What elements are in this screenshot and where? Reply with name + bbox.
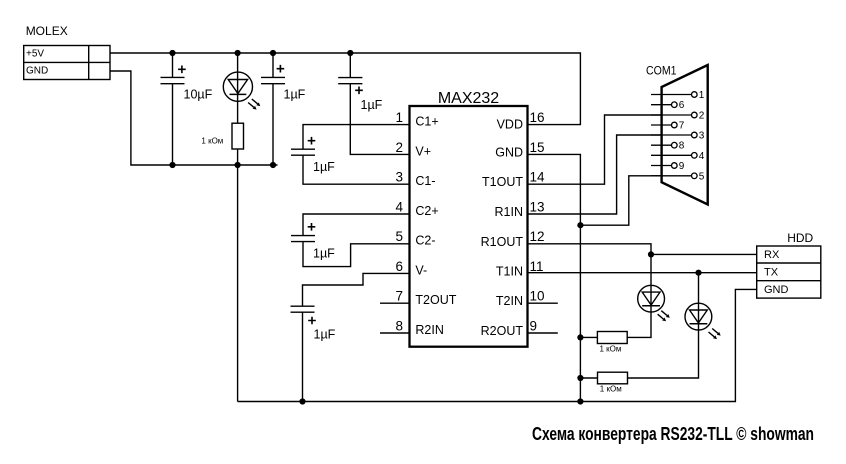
wire ground bus to COM1 pin5 (580, 176, 691, 225)
node +5V / C1 top junction (169, 50, 175, 56)
node +5V / LED D1 anode junction (235, 50, 241, 56)
svg-text:8: 8 (395, 318, 403, 333)
capacitor C3 1uF plates (338, 78, 362, 84)
plus mark C5 (308, 223, 316, 231)
wire GND from MOLEX to left ground bus (110, 71, 278, 165)
node GND / C1 bottom junction (169, 162, 175, 168)
node GND bus / bottom rail junction (577, 398, 583, 404)
resistor R3 1kOm box (598, 372, 628, 384)
svg-text:+5V: +5V (26, 48, 44, 59)
svg-text:T2OUT: T2OUT (415, 293, 456, 307)
svg-text:1 кОм: 1 кОм (201, 136, 223, 145)
svg-text:RX: RX (764, 249, 780, 261)
svg-text:R2IN: R2IN (415, 323, 443, 337)
node GND / R1 bottom junction (235, 162, 241, 168)
svg-text:R1IN: R1IN (495, 205, 523, 219)
COM1 pin 1 circle (672, 92, 698, 179)
capacitor C1 10uF plates (161, 77, 185, 83)
svg-text:1 кОм: 1 кОм (600, 385, 622, 394)
svg-text:T1IN: T1IN (496, 264, 523, 278)
wire LED D1 branch vertical (237, 53, 239, 123)
svg-text:9: 9 (679, 161, 685, 172)
op-amp U1 MAX232 body (410, 106, 528, 347)
svg-text:C2-: C2- (415, 234, 435, 248)
node GND bus / R3 junction (577, 375, 583, 381)
svg-text:GND: GND (495, 145, 523, 159)
svg-text:15: 15 (530, 140, 545, 155)
svg-text:GND: GND (764, 284, 789, 296)
svg-text:2: 2 (395, 140, 403, 155)
svg-text:13: 13 (530, 199, 545, 214)
svg-text:5: 5 (395, 229, 403, 244)
COM1 pin 5 circle (692, 173, 698, 179)
capacitor C5 1uF wires pin4 to pin5 (303, 214, 410, 267)
wire COM1 pins 1-5 stubs (651, 95, 692, 176)
LED D3 (685, 303, 721, 339)
connector MOLEX box (24, 46, 110, 80)
svg-text:GND: GND (26, 65, 48, 76)
plus mark C1 (178, 66, 186, 74)
node TX / LED D3 anode junction (695, 270, 701, 276)
svg-text:8: 8 (679, 141, 685, 152)
svg-text:1: 1 (699, 90, 705, 101)
svg-text:3: 3 (699, 131, 705, 142)
svg-text:10µF: 10µF (184, 88, 213, 102)
svg-text:4: 4 (395, 199, 403, 214)
svg-text:HDD: HDD (787, 231, 813, 245)
svg-text:6: 6 (395, 259, 403, 274)
resistor R1 1kOm vertical box (232, 123, 244, 149)
COM1 pin 2 circle (692, 112, 698, 118)
plus mark C3 (355, 87, 363, 95)
svg-text:6: 6 (679, 100, 685, 111)
svg-text:V-: V- (415, 263, 427, 277)
LED D2 (638, 285, 670, 321)
LED D1 (223, 72, 260, 110)
connector COM1 DB9 trapezoid (662, 65, 708, 205)
resistor R2 1kOm box (597, 332, 627, 344)
svg-text:1 кОм: 1 кОм (600, 345, 622, 354)
svg-text:1: 1 (395, 110, 403, 125)
COM1 pin 6 circle (672, 102, 678, 108)
capacitor C6 1uF plates (291, 306, 315, 312)
plus mark C4 (308, 137, 316, 145)
capacitor C4 1uF plates (291, 149, 315, 155)
svg-text:16: 16 (530, 110, 545, 125)
svg-text:Схема конвертера RS232-TLL © s: Схема конвертера RS232-TLL © showman (532, 424, 814, 444)
svg-text:2: 2 (699, 111, 705, 122)
capacitor C6 1uF wires pin6 V- to bottom rail (303, 273, 410, 401)
node +5V / C3 top junction (347, 50, 353, 56)
svg-text:COM1: COM1 (646, 64, 677, 78)
COM1 pin 8 circle (672, 142, 678, 148)
wire pin12 R1OUT to HDD RX (528, 244, 757, 255)
node GND bus / R2 junction (577, 334, 583, 340)
capacitor C5 1uF plates (291, 236, 315, 242)
svg-text:12: 12 (530, 229, 545, 244)
COM1 pin 7 circle (672, 122, 678, 128)
svg-text:10: 10 (530, 289, 545, 304)
svg-text:7: 7 (395, 289, 403, 304)
svg-text:MOLEX: MOLEX (26, 24, 68, 38)
connector HDD box (757, 246, 821, 298)
svg-text:VDD: VDD (497, 117, 523, 131)
svg-text:C1+: C1+ (415, 115, 438, 129)
node RX / LED D2 anode junction (648, 251, 654, 257)
svg-text:C1-: C1- (415, 174, 435, 188)
wire pin10 T2IN stub (528, 302, 558, 304)
node +5V / C2 top junction (270, 50, 276, 56)
svg-text:3: 3 (395, 170, 403, 185)
wire COM1 pins 6-9 stubs (651, 105, 672, 166)
node GND / C2 bottom junction (270, 162, 276, 168)
plus mark C2 (277, 65, 285, 73)
svg-text:R1OUT: R1OUT (481, 235, 524, 249)
svg-text:TX: TX (764, 266, 779, 278)
svg-text:11: 11 (530, 259, 544, 274)
svg-text:9: 9 (530, 318, 538, 333)
wire bottom ground rail to HDD GND (238, 289, 757, 401)
svg-text:1µF: 1µF (314, 327, 336, 341)
svg-text:1µF: 1µF (313, 160, 335, 174)
plus mark C6 (308, 317, 316, 325)
node GND bus / COM1 pin5 junction (577, 222, 583, 228)
capacitor C2 1uF branch wires (272, 53, 274, 165)
wire R1 bottom to bottom rail (237, 149, 239, 402)
svg-text:1µF: 1µF (284, 88, 306, 102)
wire LED D3 anode and cathode to R3 (580, 273, 698, 378)
wire pin13 R1IN to COM1 pin3 (528, 135, 692, 214)
svg-text:MAX232: MAX232 (438, 90, 499, 107)
svg-text:7: 7 (679, 121, 685, 132)
capacitor C4 1uF wires pin1 to pin3 (303, 125, 410, 185)
svg-text:V+: V+ (415, 144, 431, 158)
wire pin9 R2OUT stub (528, 332, 558, 334)
COM1 pin 4 circle (692, 153, 698, 159)
svg-text:14: 14 (530, 170, 546, 185)
svg-text:5: 5 (699, 171, 705, 182)
svg-text:4: 4 (699, 151, 705, 162)
wire pin15 GND to right ground bus (528, 154, 581, 401)
svg-text:C2+: C2+ (415, 204, 438, 218)
wire pin8 R2IN stub (380, 332, 410, 334)
COM1 pin 9 circle (672, 163, 678, 169)
svg-text:1µF: 1µF (313, 246, 335, 260)
wire LED D2 anode and cathode to R2 (580, 254, 651, 337)
node bottom rail / C6 junction (299, 398, 305, 404)
wire pin11 T1IN to HDD TX (528, 272, 757, 274)
svg-text:T1OUT: T1OUT (482, 175, 523, 189)
wire +5V rail from MOLEX to VDD pin16 (110, 53, 580, 125)
wire pin7 T2OUT stub (380, 302, 410, 304)
svg-text:R2OUT: R2OUT (481, 324, 524, 338)
capacitor C2 1uF plates (261, 77, 285, 83)
svg-text:T2IN: T2IN (496, 294, 523, 308)
capacitor C1 10uF branch wires (172, 53, 174, 165)
capacitor C3 1uF branch to V+ pin2 (350, 53, 409, 154)
wire pin14 T1OUT to COM1 pin2 (528, 115, 692, 184)
svg-text:1µF: 1µF (361, 98, 383, 112)
COM1 pin 3 circle (692, 132, 698, 138)
